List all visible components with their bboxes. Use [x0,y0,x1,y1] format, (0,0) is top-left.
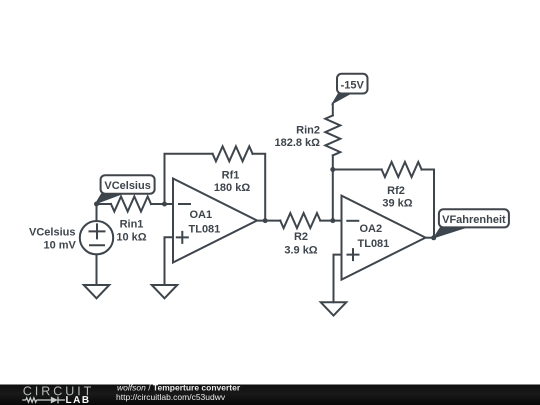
svg-text:OA2: OA2 [360,223,383,235]
wire [253,154,266,221]
svg-text:Rf1: Rf1 [222,170,240,182]
svg-text:180 kΩ: 180 kΩ [214,182,251,194]
svg-text:http://circuitlab.com/c53udwv: http://circuitlab.com/c53udwv [116,392,226,402]
wire [97,203,112,205]
net flag VFahrenheit [434,209,509,238]
wire [320,220,341,222]
resistor Rf1 [213,146,253,161]
svg-text:39 kΩ: 39 kΩ [382,198,412,210]
node E [330,167,335,172]
voltage source VCelsius [80,221,113,254]
svg-text:10 kΩ: 10 kΩ [116,232,146,244]
wire [165,237,174,285]
svg-text:VFahrenheit: VFahrenheit [442,214,506,226]
svg-text:R2: R2 [294,231,308,243]
power flag -15V [332,74,367,104]
resistor Rin1 [111,197,151,212]
op-amp OA2 [342,196,426,280]
wire [332,104,334,116]
wire [334,255,342,303]
op-amp OA1 [173,179,257,263]
ground [152,285,178,298]
svg-text:Rin1: Rin1 [120,218,144,230]
CircuitLab logo [22,386,91,403]
resistor Rf2 [382,162,422,177]
wire [422,170,434,238]
svg-text:VCelsius: VCelsius [29,227,75,239]
ground [321,302,347,315]
svg-text:-15V: -15V [341,79,365,91]
svg-text:182.8 kΩ: 182.8 kΩ [274,137,320,149]
node D [330,218,335,223]
wire [257,220,280,222]
resistor R2 [280,213,320,228]
wire [151,203,173,205]
svg-text:TL081: TL081 [358,238,390,250]
ground [84,285,110,298]
wire [333,169,382,171]
node B [162,202,167,207]
svg-text:Rin2: Rin2 [296,125,320,137]
wire [96,204,98,221]
wire [165,154,213,204]
svg-text:10 mV: 10 mV [43,240,76,252]
net flag VCelsius [96,175,155,204]
svg-text:Rf2: Rf2 [387,185,405,197]
footer title text [116,382,241,402]
node C [263,218,268,223]
wire [96,254,98,285]
node A [94,202,99,207]
wire [426,237,435,239]
wire [332,155,334,220]
svg-text:wolfson / Temperture converter: wolfson / Temperture converter [117,382,241,392]
svg-text:TL081: TL081 [189,223,221,235]
footer bar [0,385,540,405]
svg-text:3.9 kΩ: 3.9 kΩ [284,245,317,257]
svg-text:OA1: OA1 [190,209,213,221]
resistor Rin2 [325,115,340,155]
svg-text:VCelsius: VCelsius [104,180,150,192]
node F [431,235,436,240]
